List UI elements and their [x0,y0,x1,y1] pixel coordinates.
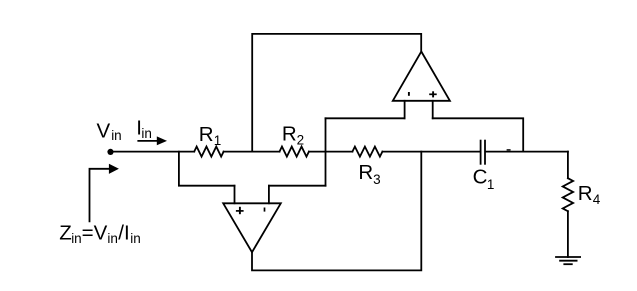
U1 minus sign (inverting input, right, small tick) [264,208,266,212]
U1 non-inverting input stub [234,186,236,204]
wire C1 right plate to R4 top corner (through node D at x=523.2) [486,151,568,153]
wire main line at x=178.9 down to U1 non-inverting input [179,152,235,186]
resistor R2 [280,147,309,157]
capacitor C1 [481,141,485,164]
U2 plus sign (non-inverting input, right) [429,91,437,97]
svg-text:R: R [199,123,214,146]
svg-text:4: 4 [593,192,601,207]
label C1 [473,166,495,192]
label Vin [97,120,122,143]
svg-text:in: in [71,231,82,246]
svg-text:in: in [111,128,122,143]
wire feedback loop: node A up, across top, down to op-amp U2 output apex [252,34,421,152]
label Zin=Vin/Iin [59,222,141,246]
label R3 [358,161,380,187]
wire R2 to R3 (through node B at x=325.5) [309,151,353,153]
svg-text:2: 2 [297,133,305,148]
resistor R4 (vertical) [563,178,573,211]
wire U2 non-inverting input right then down to main line at node D [433,118,524,151]
svg-text:Z: Z [59,222,72,245]
svg-text:=V: =V [82,222,108,245]
wire U1 inverting input to node B vertical [269,185,326,187]
U2 inverting input stub [404,101,406,119]
label R1 [199,123,222,148]
svg-text:3: 3 [373,172,381,187]
small dash marking above wire right of C1 [507,149,511,151]
U2 non-inverting input stub [432,101,434,119]
svg-text:R: R [282,123,297,146]
svg-text:in: in [107,231,118,246]
op-amp U1 (lower, apex/output at bottom) [223,203,281,252]
svg-text:1: 1 [214,133,222,148]
svg-text:R: R [358,161,373,184]
wire node B vertical (crosses main line, joins both op-amp inverting inputs) [325,118,327,185]
wire U2 inverting input to node B vertical [326,117,405,119]
U2 minus sign (inverting input, left, small tick) [408,92,410,96]
ground [556,257,580,264]
node Vin (input terminal dot) [107,149,113,155]
svg-text:C: C [473,166,488,189]
arrow Zin (impedance looking into input) [90,164,119,222]
wire main line right end down to R4 [567,152,569,179]
svg-text:V: V [97,120,111,143]
label Iin [136,117,152,141]
svg-text:/I: /I [118,222,129,245]
wire input node to R1 (main line) [111,151,195,153]
op-amp U2 (upper, apex/output at top) [393,52,450,101]
arrow Iin (input current direction) [138,136,167,145]
U1 inverting input stub [268,186,270,204]
svg-text:in: in [130,231,141,246]
label R2 [282,123,304,148]
wire U1 output loop: apex down, right, up to main line at node C [252,152,421,271]
resistor R3 [352,147,382,157]
resistor R1 [194,147,223,157]
U1 plus sign (non-inverting input, left) [236,207,244,214]
wire R3 to C1 left plate (through node C at x=421.3) [382,151,479,153]
svg-text:R: R [578,182,593,205]
svg-text:in: in [141,126,152,141]
wire R1 to R2 (through node A at x=252.2) [224,151,280,153]
label R4 [578,182,601,207]
wire R4 bottom to ground [567,211,569,257]
svg-text:1: 1 [487,177,495,192]
